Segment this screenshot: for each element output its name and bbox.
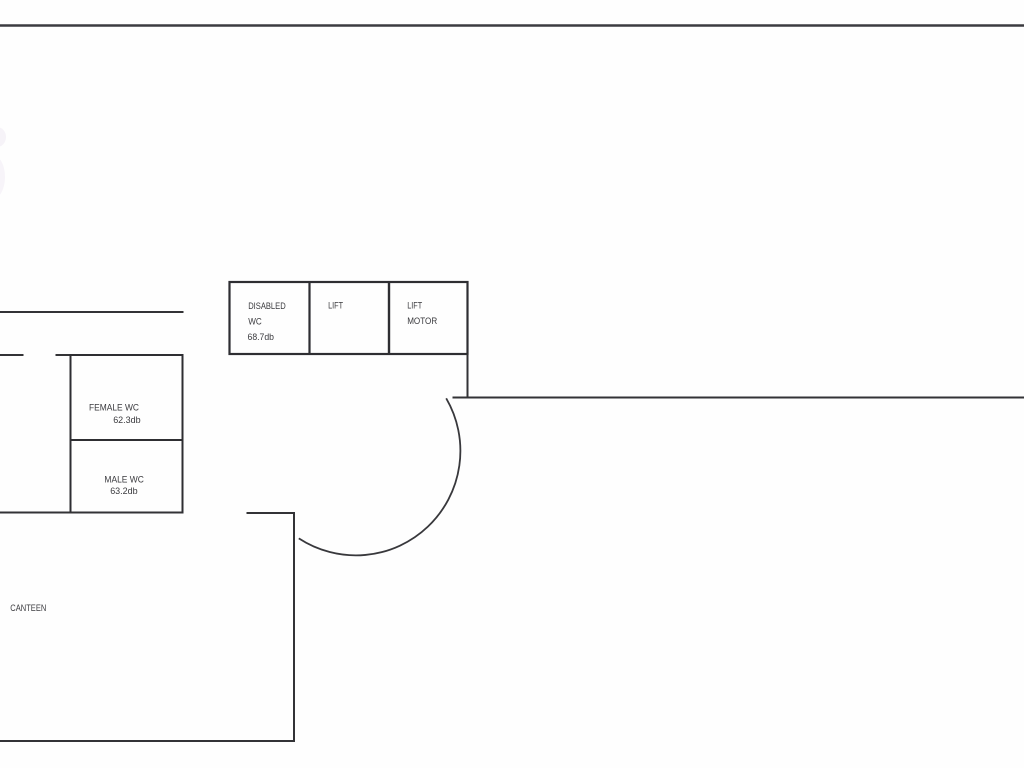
wire: canteen right wall vertical	[293, 512, 295, 742]
label DISABLED WC 68.7db	[248, 301, 287, 342]
node: FEMALE WC room box	[71, 355, 183, 440]
wire: divider disabled/lift	[308, 282, 310, 354]
wire: corner wall horizontal	[247, 512, 295, 514]
label MALE WC 63.2db	[104, 475, 144, 497]
svg-text:MALE WC: MALE WC	[104, 475, 144, 485]
wire: divider lift/motor	[388, 282, 390, 354]
faint smudge upper-left edge	[0, 127, 6, 147]
wire: wall segment right of door	[56, 354, 184, 356]
svg-text:62.3db: 62.3db	[113, 415, 141, 425]
door swing arc	[299, 398, 461, 555]
wire: stub below lift motor	[467, 354, 469, 398]
svg-text:WC: WC	[248, 317, 262, 327]
svg-text:LIFT: LIFT	[407, 301, 422, 311]
wire: canteen top wall	[0, 512, 183, 514]
wire: corridor wall left	[0, 311, 184, 313]
svg-text:DISABLED: DISABLED	[248, 301, 286, 311]
wire: wall segment left of door	[0, 354, 24, 356]
label LIFT MOTOR	[407, 301, 437, 327]
svg-text:68.7db: 68.7db	[248, 332, 275, 342]
faint smudge left edge	[0, 156, 5, 198]
svg-text:FEMALE WC: FEMALE WC	[89, 403, 139, 413]
svg-text:MOTOR: MOTOR	[407, 316, 437, 326]
svg-text:CANTEEN: CANTEEN	[10, 603, 46, 613]
label FEMALE WC 62.3db	[89, 403, 141, 426]
node: DISABLED WC / LIFT / LIFT MOTOR block	[230, 282, 468, 354]
wire: long right wall	[453, 397, 1024, 399]
wire: canteen bottom wall	[0, 740, 295, 742]
svg-text:63.2db: 63.2db	[110, 486, 138, 496]
wire: top boundary wall	[0, 24, 1024, 26]
node: MALE WC room box	[71, 440, 183, 513]
svg-text:LIFT: LIFT	[328, 301, 343, 311]
